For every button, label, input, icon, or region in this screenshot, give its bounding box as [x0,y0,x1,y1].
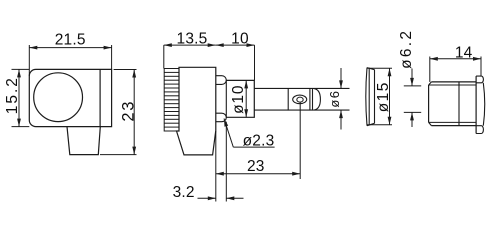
string post shaft top [254,87,349,89]
housing tab [67,127,100,155]
dim 15.2 extension bottom [12,126,30,128]
washer bottom edge [367,123,375,125]
dim 3.2 extension right [225,122,227,202]
bushing thread end line [458,82,460,126]
collar bump bottom [216,113,226,122]
bushing flange bottom tab [476,126,483,134]
bushing outer bottom [431,125,476,127]
dim 15.2 line [18,69,20,126]
hole center leader [299,102,301,179]
bushing left face [428,85,430,122]
dim 14 line [430,58,481,60]
dim 13.5 extension left [163,45,165,68]
washer top edge [367,68,375,70]
washer face line [374,70,376,124]
svg-text:ø6: ø6 [327,90,342,108]
svg-text:ø2.3: ø2.3 [243,133,275,150]
washer inner line [368,68,370,126]
dim o2.3 leader arrow [224,119,228,127]
dim o10 line [245,80,247,117]
bushing flange face arc [483,83,484,126]
svg-text:ø15: ø15 [375,81,392,112]
dim o6.2 tick bottom [404,111,421,113]
shaft tip groove [312,88,314,110]
svg-text:3.2: 3.2 [173,184,195,201]
post base cylinder [226,80,254,117]
collar face line [225,80,227,117]
dim o6.2 line bottom [411,112,413,127]
svg-text:23: 23 [120,100,138,122]
collar bump top [216,76,226,85]
bushing thread root top [429,84,477,86]
bushing thread root bottom [429,121,477,123]
dim 14 extension left [429,57,431,82]
knob knurl ladder [164,69,179,132]
dim 21.5 extension left [28,45,30,76]
housing body [29,69,111,126]
shaft section line B [309,88,311,110]
svg-text:10: 10 [231,30,249,47]
shaft dome tip [314,89,320,110]
housing step line [99,69,101,126]
knob body [177,67,216,155]
dim 15.2 extension top [12,68,30,70]
bushing outer top [431,81,476,83]
housing gear circle [34,73,83,122]
string post shaft bottom [254,109,349,111]
svg-text:15.2: 15.2 [4,76,21,114]
svg-text:23: 23 [247,158,265,175]
dim 10 extension right [254,45,256,80]
svg-text:13.5: 13.5 [177,30,208,47]
string hole inner [297,97,303,102]
dim 23 left-view extension bottom [100,154,137,156]
dim 23 shaft line [216,173,300,175]
dim 10 line [216,44,255,46]
dim o2.3 leader line [224,119,233,148]
dim o15 extension bottom [367,124,393,126]
bushing flange top tab [476,76,483,83]
svg-text:ø6.2: ø6.2 [398,29,415,69]
dim o6.2 line top [411,69,413,86]
dim o6 line top [340,68,342,88]
dim o15 line [389,68,391,125]
bushing chamfer top [429,82,432,85]
svg-text:14: 14 [455,45,473,62]
dim 13.5 line [164,44,216,46]
dim o2.3 shelf [233,146,274,148]
string hole outer [293,95,307,104]
dim 23 left-view extension top [114,69,137,71]
dim o6.2 tick top [404,85,421,87]
bushing chamfer bottom [429,122,432,125]
dim 23 left-view line [133,70,135,155]
dim 21.5 extension right [111,45,113,69]
dim 3.2 line right tail [226,197,243,199]
dim 3.2 extension left [215,131,217,202]
washer rim arc [366,68,367,126]
dim 21.5 line [29,47,111,49]
shaft section line A [287,88,289,110]
dim 14 extension right [480,57,482,77]
dim o6 line bottom [340,110,342,129]
svg-text:21.5: 21.5 [55,32,86,49]
bushing flange left edge [475,76,477,133]
dim o15 extension top [367,67,393,69]
dim 3.2 line left tail [198,197,216,199]
svg-text:ø10: ø10 [230,85,247,114]
